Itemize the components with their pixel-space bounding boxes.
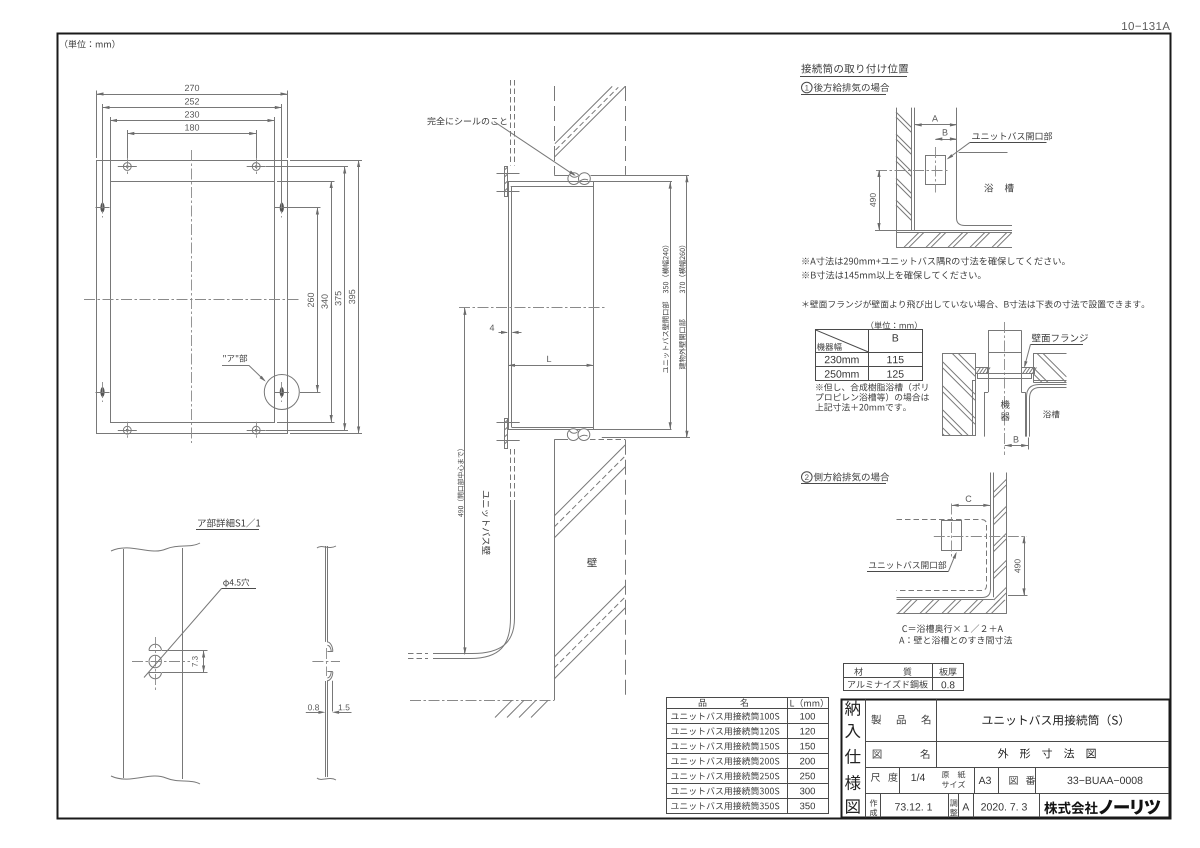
side slot hole left lower: [100, 387, 104, 397]
burring bump lower: [327, 671, 332, 673]
dim 180: [127, 130, 129, 158]
case2 dim C: [952, 505, 991, 507]
dim 350 label: [662, 302, 669, 373]
flange dwg left panel: [972, 381, 974, 436]
note B dim: [802, 271, 980, 280]
seal note leader: [494, 122, 575, 176]
mounting hole top-left: [123, 163, 131, 171]
dim 252: [102, 104, 104, 203]
building wall top hatching: [555, 86, 612, 143]
flange extension ticks lower: [497, 422, 520, 424]
unit note (tani:mm): [65, 40, 114, 49]
duct right end: [593, 182, 595, 430]
machine label: [1001, 400, 1010, 409]
duct top wall: [508, 181, 672, 183]
sealant blob top: [568, 173, 590, 185]
dim 370 label: [679, 319, 686, 369]
front view outer plate: [97, 161, 288, 434]
wall label: [587, 558, 597, 567]
flange dwg bathtub: [1027, 385, 1067, 437]
dim 4 duct wall: [499, 332, 508, 334]
flange dwg left wall: [943, 354, 976, 436]
case 1 heading: [802, 82, 813, 93]
dim L duct length: [508, 365, 594, 367]
dim 350 unit bath wall opening: [670, 182, 672, 430]
note wall flange: [802, 300, 1144, 308]
front view vertical centerline: [191, 150, 193, 443]
dim 270: [96, 91, 98, 159]
lower wall flange plate: [505, 419, 508, 449]
flange dwg duct: [988, 330, 990, 392]
note A dim: [802, 257, 1064, 265]
B table note: [816, 383, 927, 391]
section centerlines: [326, 648, 328, 676]
dim 395 vertical: [290, 160, 362, 162]
detail plate section right strip: [325, 546, 327, 642]
case 2 heading: [802, 472, 813, 483]
upper wall flange plate: [505, 167, 508, 197]
case2 label unit bath opening: [869, 561, 946, 569]
material table: [844, 664, 964, 691]
case1 floor hatching: [904, 233, 919, 248]
case1 dim 490: [875, 230, 896, 232]
B table unit note: [871, 321, 916, 329]
flange extension ticks upper: [497, 173, 520, 175]
dim 0.8 and 1.5: [308, 704, 319, 710]
dim 370 building wall opening: [686, 175, 688, 437]
break wave bottom: [111, 776, 200, 784]
ground hatching ticks: [531, 700, 548, 717]
hole lower half-moon: [149, 672, 161, 674]
case1 opening rect: [926, 156, 946, 185]
detail title a-bu S1/1: [198, 518, 260, 527]
building wall above opening right edge: [625, 86, 627, 175]
side slot hole right lower "a" hole: [280, 387, 284, 397]
bathtub label flange dwg: [1043, 410, 1059, 418]
mounting hole bottom-left: [123, 426, 131, 434]
burring bump upper: [327, 651, 332, 653]
mounting hole top-right: [252, 163, 260, 171]
case2 opening rect: [942, 521, 962, 551]
section break waves: [317, 546, 336, 548]
flange dwg right panel lines: [1034, 380, 1067, 382]
case2 notes: [902, 624, 1003, 632]
dim 490 to opening center: [464, 308, 466, 655]
title block outer: [842, 700, 1170, 818]
detail plate elevation right edge: [182, 548, 184, 779]
case2 dim 490: [1008, 595, 1028, 597]
side slot hole left upper: [100, 203, 104, 213]
label unit bath wall vertical: [482, 491, 490, 555]
section heading mounting position: [801, 64, 908, 74]
flange dwg centerline: [1004, 322, 1006, 455]
case1 building wall left: [896, 108, 898, 248]
dim 340 vertical: [277, 181, 335, 183]
sealant blob bottom: [567, 429, 589, 441]
case1 floor: [896, 230, 1012, 232]
case1 bathtub label: [984, 184, 1013, 193]
case1 dim B: [935, 139, 957, 141]
lower wall hatching group 2: [554, 586, 625, 657]
scale row: [871, 773, 880, 782]
hole centerlines: [155, 637, 157, 692]
dim 230: [110, 117, 112, 181]
product length table: [667, 698, 829, 814]
building wall bottom edge of upper wall: [554, 175, 568, 177]
duct left wall: [508, 182, 510, 430]
case2 bathtub dashed outline: [897, 520, 987, 591]
flange dwg right wall: [1034, 354, 1067, 383]
drawing name row: [873, 750, 882, 759]
case2 floor: [897, 473, 991, 598]
flange plate bar: [978, 374, 1032, 379]
lower wall hatching group 1: [554, 445, 625, 516]
product name row: [871, 715, 881, 725]
B table: [816, 330, 923, 381]
label phi 4.5 hole: [223, 578, 249, 587]
flange dwg machine outline: [984, 392, 986, 436]
case1 label unit bath opening: [972, 132, 1052, 140]
mounting hole bottom-right: [252, 426, 260, 434]
sheet number 10-131A: [1122, 22, 1170, 30]
duct centerline: [459, 307, 607, 309]
label "a"-bu with leader: [223, 354, 247, 362]
building wall above opening left edge: [554, 86, 556, 175]
dim B flange dwg: [1028, 438, 1030, 450]
title block nounyuu shiyouzu vertical: [845, 701, 860, 716]
break wave top: [111, 543, 200, 551]
hole upper half-moon: [149, 650, 161, 652]
date row: [870, 799, 877, 806]
flange dwg seal hatched blocks: [976, 367, 1037, 373]
title block grid: [865, 699, 867, 817]
floor line: [410, 700, 554, 702]
case2 wall: [993, 473, 995, 598]
case1 wall hatching: [896, 112, 911, 127]
building wall below opening: [554, 440, 556, 701]
case1 dim A: [915, 124, 957, 126]
burring collar line: [332, 681, 334, 712]
front view inner opening: [111, 182, 275, 423]
case1 bathtub edge: [957, 108, 1013, 226]
side slot hole right upper: [280, 203, 284, 213]
dim 7.3: [162, 650, 208, 652]
Noritz logo: [1044, 802, 1097, 815]
seal note text: [427, 117, 506, 125]
detail circle for "a" part: [264, 375, 299, 410]
flange label: [1032, 334, 1088, 343]
case1 unit bath panel: [914, 108, 916, 230]
detail plate elevation left edge: [123, 549, 125, 778]
hole detail circle: [149, 655, 161, 667]
dim 375 vertical: [266, 166, 348, 168]
unit bath wall below opening: [510, 449, 512, 505]
duct bottom wall: [512, 427, 594, 429]
front view horizontal centerline: [84, 299, 299, 301]
unit bath wall hidden above opening: [510, 80, 512, 166]
dim 260 vertical: [284, 207, 321, 209]
